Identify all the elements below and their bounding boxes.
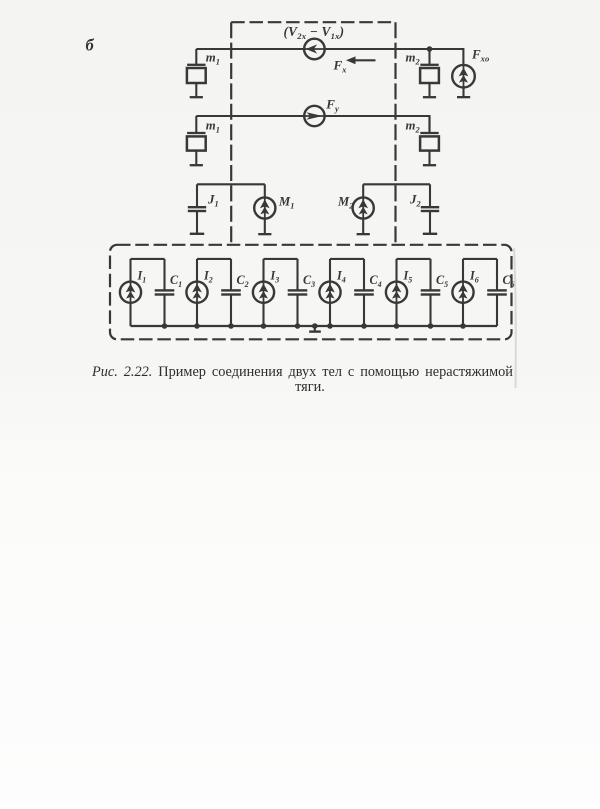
junction node rail 6 [327, 323, 333, 329]
label m1 row2 [206, 119, 220, 135]
label I6 [469, 269, 479, 285]
svg-text:(V2x − V1x): (V2x − V1x) [284, 24, 345, 41]
label J2 [409, 192, 421, 209]
label I1 [137, 269, 147, 285]
svg-text:C4: C4 [370, 273, 382, 289]
wire corner to Fxo lead [462, 48, 464, 65]
bottom rail wire [131, 325, 498, 327]
source I6 [452, 259, 473, 326]
wire row3 left group J1 to M1 [197, 183, 265, 185]
svg-text:Fx: Fx [333, 58, 348, 75]
dashed outline box bottom (bodies) [110, 245, 512, 339]
source I3 [253, 259, 274, 326]
wire row2 left segment m1 to Fy source [196, 115, 304, 117]
label I2 [203, 269, 213, 285]
cell 4 top wire [330, 258, 364, 260]
source M1 [254, 184, 275, 235]
svg-text:J2: J2 [409, 192, 421, 209]
label m1 row1 [206, 51, 220, 67]
dashed tie outline box top border [231, 21, 395, 23]
source I4 [319, 259, 340, 326]
junction node rail 1 [162, 323, 168, 329]
junction node rail 5 [295, 323, 301, 329]
svg-text:C6: C6 [503, 273, 515, 289]
label Fxo [471, 47, 489, 64]
label C3 [303, 273, 315, 289]
svg-text:m1: m1 [206, 51, 220, 67]
label I5 [403, 269, 413, 285]
source Fy U2 [304, 106, 324, 126]
junction node rail 10 [460, 323, 466, 329]
source I2 [186, 259, 207, 326]
svg-text:C1: C1 [170, 273, 182, 289]
cell 1 top wire [131, 258, 165, 260]
label C5 [436, 273, 448, 289]
page edge shadow (scan artifact) [514, 248, 516, 388]
force arrow Fx pointing left [346, 56, 376, 64]
wire row1 left segment m1 to source [196, 48, 304, 50]
svg-text:Fxo: Fxo [471, 47, 489, 64]
svg-text:I6: I6 [469, 269, 479, 285]
label M2 [337, 195, 353, 211]
label M1 [278, 195, 294, 211]
label I4 [336, 269, 346, 285]
junction node rail 2 [194, 323, 200, 329]
label J1 [207, 192, 219, 209]
label Fy [325, 97, 339, 114]
svg-text:M2: M2 [337, 195, 353, 211]
svg-text:I2: I2 [203, 269, 213, 285]
capacitor C3 [288, 259, 308, 326]
source (V2x-V1x) U1 [304, 39, 325, 60]
ground symbol [309, 323, 321, 333]
junction node rail 8 [394, 323, 400, 329]
capacitor C5 [421, 259, 441, 326]
cell 2 top wire [197, 258, 231, 260]
cell 3 top wire [264, 258, 298, 260]
capacitor C1 [155, 259, 175, 326]
cell 5 top wire [397, 258, 431, 260]
label m2 row2 [406, 119, 420, 135]
svg-text:C3: C3 [303, 273, 315, 289]
junction node rail 4 [261, 323, 267, 329]
label C6 [503, 273, 515, 289]
svg-text:I1: I1 [137, 269, 147, 285]
label C4 [370, 273, 382, 289]
capacitor J1 [188, 184, 206, 235]
source M2 [353, 184, 374, 235]
source I5 [386, 259, 407, 326]
capacitor C6 [487, 259, 507, 326]
svg-text:I4: I4 [336, 269, 346, 285]
wire row3 right group M2 to J2 [363, 183, 430, 185]
mass m2 row1 [420, 49, 439, 98]
label (V2x - V1x) [284, 24, 345, 41]
svg-text:M1: M1 [278, 195, 294, 211]
svg-text:б: б [86, 36, 95, 55]
svg-text:Fy: Fy [325, 97, 339, 114]
figure caption line 2 [10, 379, 600, 396]
cell 6 top wire [463, 258, 497, 260]
dashed tie outline box right border [394, 22, 396, 245]
wire row1 right segment source to Fxo corner [324, 48, 463, 50]
label C2 [237, 273, 249, 289]
source I1 [120, 259, 141, 326]
capacitor C2 [221, 259, 241, 326]
svg-text:m2: m2 [406, 51, 420, 67]
svg-text:I3: I3 [270, 269, 280, 285]
capacitor C4 [354, 259, 374, 326]
label I3 [270, 269, 280, 285]
wire row2 right segment Fy source to m2 corner [324, 115, 430, 133]
source Fxo [452, 65, 475, 98]
mass m2 row2 [420, 116, 439, 166]
svg-text:m2: m2 [406, 119, 420, 135]
figure caption line 1 [92, 365, 513, 379]
label m2 row1 [406, 51, 420, 67]
junction node row1 / m2 tap [427, 46, 433, 52]
label C1 [170, 273, 182, 289]
dashed tie outline box left border [230, 22, 232, 245]
mass m1 row1 [187, 49, 206, 98]
svg-text:C2: C2 [237, 273, 249, 289]
junction node rail 9 [428, 323, 434, 329]
svg-text:I5: I5 [403, 269, 413, 285]
mass m1 row2 [187, 116, 206, 166]
capacitor J2 [421, 184, 439, 235]
svg-text:J1: J1 [207, 192, 219, 209]
svg-text:C5: C5 [436, 273, 448, 289]
label Fx [333, 58, 348, 75]
figure part label б [86, 36, 95, 55]
junction node rail 3 [228, 323, 234, 329]
svg-text:m1: m1 [206, 119, 220, 135]
junction node rail 7 [361, 323, 367, 329]
